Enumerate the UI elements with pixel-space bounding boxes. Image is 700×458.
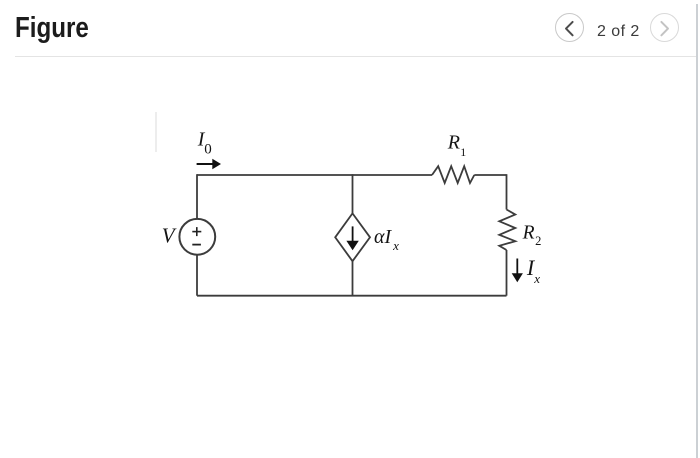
svg-text:αI: αI (374, 226, 392, 248)
V source minus sign (192, 244, 201, 246)
label alpha Ix (374, 226, 399, 253)
wire top-left horizontal (node from V+ to middle node) (197, 174, 353, 176)
label I0 (197, 128, 212, 157)
svg-text:0: 0 (204, 142, 212, 158)
resistor R1 zigzag (432, 166, 474, 183)
card right edge line (696, 4, 698, 458)
previous page button (555, 13, 584, 42)
pagination text "2 of 2" (597, 23, 640, 41)
svg-text:1: 1 (460, 145, 466, 159)
svg-text:2: 2 (535, 234, 541, 248)
label R1 (447, 132, 466, 159)
current source arrow (downward) (346, 226, 358, 250)
header title "Figure" (15, 12, 89, 45)
wire bottom horizontal (197, 295, 507, 297)
wire left vertical upper (top node to V source) (196, 174, 198, 219)
V source plus sign (192, 227, 201, 236)
wire left vertical lower (V source to bottom wire) (196, 255, 198, 296)
voltage source V circle (179, 219, 215, 255)
next page button (disabled) (650, 13, 679, 42)
wire top-right horizontal (R1 right lead to right node) (474, 174, 506, 176)
header separator line (15, 56, 697, 57)
wire top-middle horizontal (middle node to R1 left lead) (353, 174, 433, 176)
svg-text:R: R (447, 132, 460, 154)
label Ix (526, 255, 540, 286)
label R2 (522, 223, 542, 248)
svg-text:R: R (522, 223, 535, 244)
wire right vertical lower (R2 bottom lead to bottom wire) (506, 250, 508, 296)
svg-text:x: x (392, 238, 399, 253)
svg-text:x: x (533, 271, 540, 286)
dependent current source diamond (335, 213, 370, 261)
current arrow Ix (512, 259, 523, 283)
wire middle vertical upper (top wire to current source) (352, 174, 354, 213)
svg-text:V: V (162, 224, 177, 248)
wire right vertical upper (to R2 top lead) (506, 174, 508, 209)
wire middle vertical lower (current source to bottom wire) (352, 261, 354, 296)
resistor R2 zigzag (499, 210, 515, 251)
faint figure-scan artifact line (155, 112, 157, 152)
current arrow I0 (197, 159, 221, 169)
